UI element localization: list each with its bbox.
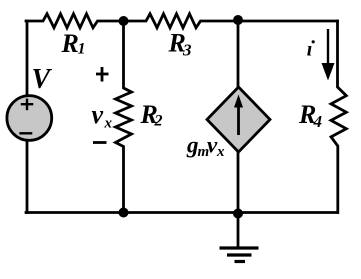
svg-text:1: 1 xyxy=(78,41,86,58)
svg-text:R: R xyxy=(61,29,79,58)
svg-text:3: 3 xyxy=(182,41,192,60)
svg-text:v: v xyxy=(92,100,104,129)
svg-text:2: 2 xyxy=(154,113,163,130)
svg-text:V: V xyxy=(32,64,53,95)
svg-text:ı: ı xyxy=(307,38,313,60)
svg-text:4: 4 xyxy=(313,112,323,131)
svg-text:x: x xyxy=(104,116,113,132)
svg-text:x: x xyxy=(216,144,225,160)
